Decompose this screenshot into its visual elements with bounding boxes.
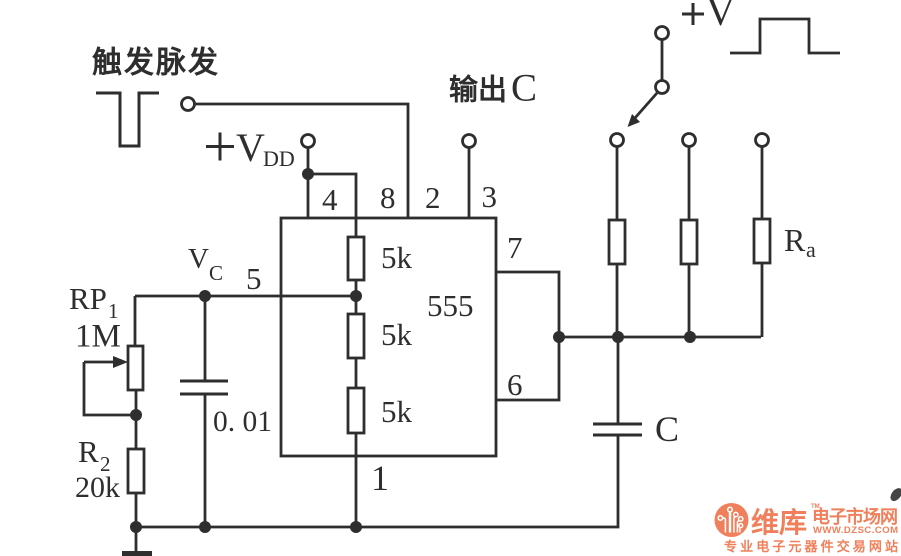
svg-text:WWW.DZSC.COM: WWW.DZSC.COM [813, 525, 898, 536]
svg-text:电子市场网: 电子市场网 [812, 506, 898, 527]
svg-text:0. 01: 0. 01 [213, 406, 272, 438]
switch: common terminal [656, 27, 669, 40]
watermark: logo circle with circuit traces [715, 503, 749, 537]
svg-text:R: R [784, 222, 806, 258]
node: VDD junction [302, 168, 314, 180]
svg-text:1: 1 [371, 458, 389, 498]
svg-text:8: 8 [380, 180, 396, 215]
terminal: +VDD [302, 135, 315, 148]
wire: timing node bus [559, 336, 761, 339]
svg-text:维库: 维库 [751, 507, 807, 538]
potentiometer RP1 body [128, 346, 143, 390]
wire: pin 1 to bus [355, 456, 358, 527]
node: ground bus left [130, 521, 142, 533]
label: Ra [784, 222, 816, 262]
resistor Ra body [754, 219, 770, 263]
resistor 2 body [681, 220, 697, 264]
potentiometer RP1 wiper arrow [84, 356, 128, 368]
capacitor 0.01: top lead [204, 296, 207, 380]
resistor: internal 5k (top) [348, 237, 364, 280]
svg-text:触发脉发: 触发脉发 [92, 47, 220, 80]
capacitor 0.01: bottom lead [204, 395, 207, 527]
svg-text:V: V [236, 125, 265, 170]
svg-text:R: R [78, 434, 99, 469]
capacitor C plates [593, 424, 642, 435]
terminal: resistor 1 top [611, 134, 624, 147]
wire: trigger input to pin 2 [195, 104, 408, 218]
label: R2 [78, 434, 111, 476]
svg-text:C: C [511, 67, 537, 110]
wire: pin 5 (control voltage) [135, 295, 356, 298]
wire: VDD to pin 8 [308, 174, 356, 218]
node: pin 6/7 junction [553, 331, 565, 343]
node: RP1/R2 junction [130, 409, 142, 421]
terminal: trigger input [182, 98, 195, 111]
wire: R2 bottom to ground bus [135, 493, 138, 551]
terminal: resistor Ra top [756, 134, 769, 147]
ground symbol [122, 551, 152, 556]
wire: pin 3 [468, 148, 471, 218]
node: pin1 on bus [350, 521, 362, 533]
svg-text:DD: DD [263, 146, 295, 171]
resistor: internal 5k (middle) [348, 314, 364, 358]
svg-text:5: 5 [246, 261, 262, 296]
wire: VDD to pin 4 [307, 148, 310, 218]
resistor: internal 5k (bottom) [348, 388, 364, 433]
resistor Ra leads [761, 147, 764, 337]
resistor R2 body [128, 449, 144, 493]
capacitor C top lead [617, 337, 620, 423]
svg-text:V: V [188, 243, 209, 275]
wire: internal divider chain [355, 218, 358, 456]
svg-text:RP: RP [69, 281, 107, 316]
svg-text:1M: 1M [75, 319, 121, 355]
wire: pins 7 and 6 tied [496, 272, 559, 400]
svg-text:555: 555 [427, 288, 474, 323]
svg-text:5k: 5k [381, 240, 413, 275]
switch: pole wire [661, 40, 664, 80]
label: +V [682, 3, 704, 25]
ink blob artifact [888, 486, 901, 503]
label: VC [188, 243, 223, 285]
switch: blade with arrowhead [628, 93, 658, 127]
svg-text:3: 3 [482, 179, 498, 214]
node: middle resistor bottom [684, 331, 696, 343]
label: +VDD [206, 125, 295, 171]
node: VC [199, 290, 211, 302]
op-amp U1: 555 timer IC body [281, 218, 496, 456]
svg-text:输出: 输出 [449, 73, 507, 107]
wire: wiper loop to bottom of RP1 [84, 362, 136, 415]
wire: bottom ground bus [136, 435, 618, 527]
svg-text:V: V [706, 0, 735, 34]
terminal: resistor 2 top [683, 134, 696, 147]
svg-text:C: C [655, 409, 679, 449]
capacitor 0.01 plates [180, 381, 228, 394]
terminal: output pin 3 [463, 135, 476, 148]
svg-text:5k: 5k [381, 317, 413, 352]
resistor 2 leads [688, 147, 691, 337]
svg-text:a: a [806, 237, 816, 262]
node: cap bottom on bus [199, 521, 211, 533]
svg-text:7: 7 [507, 230, 523, 265]
resistor 1 leads [616, 147, 619, 337]
node: cap C top [612, 331, 624, 343]
wire: RP1 bottom to R2 top [135, 390, 138, 449]
svg-text:2: 2 [425, 180, 441, 215]
node: divider tap [350, 290, 362, 302]
resistor 1 body [609, 220, 625, 264]
label: RP1 [69, 281, 119, 323]
+V pulse waveform [730, 19, 840, 53]
svg-text:5k: 5k [381, 394, 413, 429]
svg-text:6: 6 [507, 367, 523, 402]
svg-text:C: C [209, 261, 223, 285]
svg-text:4: 4 [322, 182, 338, 217]
switch: pole terminal [656, 81, 669, 94]
svg-text:20k: 20k [75, 471, 120, 504]
trigger pulse waveform [96, 93, 159, 146]
wire: pin5 node down to potentiometer [134, 296, 137, 346]
svg-text:专业电子元器件交易网站: 专业电子元器件交易网站 [724, 539, 898, 554]
